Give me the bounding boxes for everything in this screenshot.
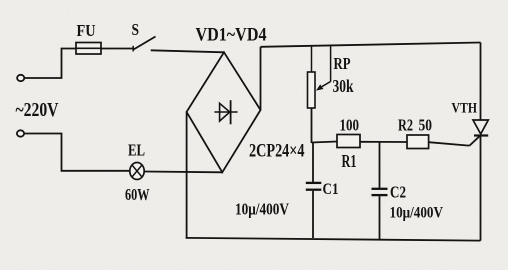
svg-text:R2: R2	[398, 116, 413, 135]
svg-text:VTH: VTH	[452, 101, 478, 117]
svg-text:VD1~VD4: VD1~VD4	[196, 25, 267, 46]
svg-text:R1: R1	[342, 151, 357, 171]
middle rail wire	[312, 142, 338, 143]
svg-text:S: S	[132, 20, 140, 39]
svg-text:2CP24×4: 2CP24×4	[249, 142, 305, 162]
resistor R2	[407, 135, 429, 149]
thyristor VTH	[473, 43, 488, 241]
wire: bottom rail	[186, 238, 481, 241]
svg-text:C2: C2	[390, 183, 406, 202]
svg-text:EL: EL	[128, 141, 145, 160]
lamp EL	[130, 163, 144, 180]
svg-text:60W: 60W	[125, 185, 150, 204]
wire: top rail	[261, 43, 481, 47]
wire: right vertex up to top rail	[260, 47, 262, 110]
wire	[360, 141, 407, 143]
svg-text:C1: C1	[323, 181, 339, 198]
svg-text:~220V: ~220V	[16, 99, 59, 121]
capacitor C2	[372, 142, 388, 240]
diode symbol inside bridge	[214, 100, 237, 124]
svg-text:30k: 30k	[333, 76, 354, 96]
svg-text:100: 100	[340, 116, 360, 135]
wire	[151, 50, 224, 52]
terminal upper left	[17, 75, 24, 81]
wire	[144, 171, 222, 174]
svg-text:RP: RP	[334, 54, 351, 73]
svg-text:FU: FU	[77, 21, 96, 40]
wire	[429, 142, 470, 145]
svg-text:50: 50	[419, 116, 433, 135]
terminal lower left	[17, 130, 24, 136]
bridge rectifier VD1-VD4	[187, 52, 261, 172]
potentiometer RP	[308, 46, 316, 143]
capacitor C1	[306, 143, 322, 238]
svg-text:10μ/400V: 10μ/400V	[235, 200, 289, 219]
svg-text:10μ/400V: 10μ/400V	[390, 205, 444, 222]
wire	[24, 134, 129, 171]
wire	[24, 49, 76, 79]
RP wiper arrow	[316, 46, 331, 91]
wire: left vertex down to bottom rail	[186, 112, 188, 239]
fuse FU	[76, 43, 101, 55]
switch S	[133, 37, 155, 52]
wire: gate diagonal to VTH	[470, 136, 481, 146]
wire	[101, 48, 133, 50]
resistor R1	[337, 135, 360, 148]
